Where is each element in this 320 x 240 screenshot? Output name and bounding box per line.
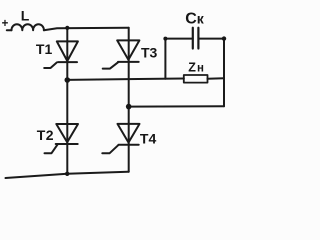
svg-text:T1: T1 xyxy=(36,41,53,57)
junction dot capacitor left terminal xyxy=(163,37,167,41)
wire top rail xyxy=(44,28,129,31)
wire bottom rail xyxy=(6,172,129,178)
svg-text:Cк: Cк xyxy=(185,11,205,28)
wire node B to right vertical xyxy=(129,105,224,107)
wire from + terminal to inductor xyxy=(7,29,12,31)
svg-text:+: + xyxy=(2,18,9,30)
wire right column through T3 and T4 xyxy=(128,28,130,172)
wire Zн to right vertical xyxy=(208,77,225,80)
wire capacitor left vertical xyxy=(164,39,166,79)
wire right vertical xyxy=(223,39,225,107)
svg-text:T3: T3 xyxy=(141,44,158,60)
junction dot node A (T1/T2 midpoint) xyxy=(65,77,71,83)
capacitor Cк xyxy=(165,28,224,49)
svg-text:L: L xyxy=(21,7,30,23)
junction dot capacitor right terminal xyxy=(222,36,226,40)
junction dot bottom rail / T2 cathode xyxy=(65,172,69,176)
junction dot top rail / T1 anode xyxy=(65,26,69,30)
thyristor T1 xyxy=(44,41,78,68)
svg-text:T4: T4 xyxy=(140,130,157,146)
svg-text:T2: T2 xyxy=(37,127,54,143)
inductor L (3-hump coil) xyxy=(12,24,44,30)
wire node A to load Zн xyxy=(67,79,184,80)
resistor Zн (load) xyxy=(184,75,208,83)
wire left column through T1 and T2 xyxy=(66,28,68,174)
thyristor T4 xyxy=(102,124,139,153)
thyristor T2 xyxy=(45,124,79,153)
thyristor T3 xyxy=(103,40,140,68)
junction dot node B (T3/T4 midpoint) xyxy=(126,104,132,110)
svg-text:Zн: Zн xyxy=(188,61,205,75)
